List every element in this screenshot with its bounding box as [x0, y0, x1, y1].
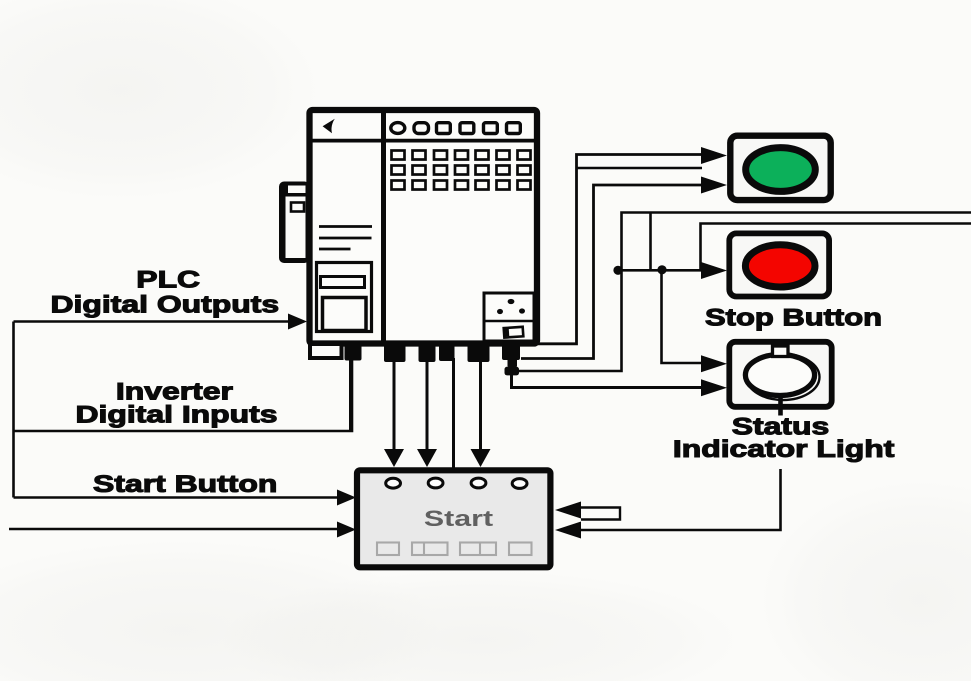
svg-text:PLC: PLC	[136, 265, 200, 292]
svg-text:Start: Start	[424, 506, 493, 531]
svg-text:Stop Button: Stop Button	[705, 304, 882, 331]
svg-text:Digital Outputs: Digital Outputs	[51, 290, 280, 317]
svg-text:Start Button: Start Button	[93, 470, 277, 497]
svg-text:Digital Inputs: Digital Inputs	[75, 400, 277, 427]
svg-text:Indicator Light: Indicator Light	[673, 435, 895, 462]
